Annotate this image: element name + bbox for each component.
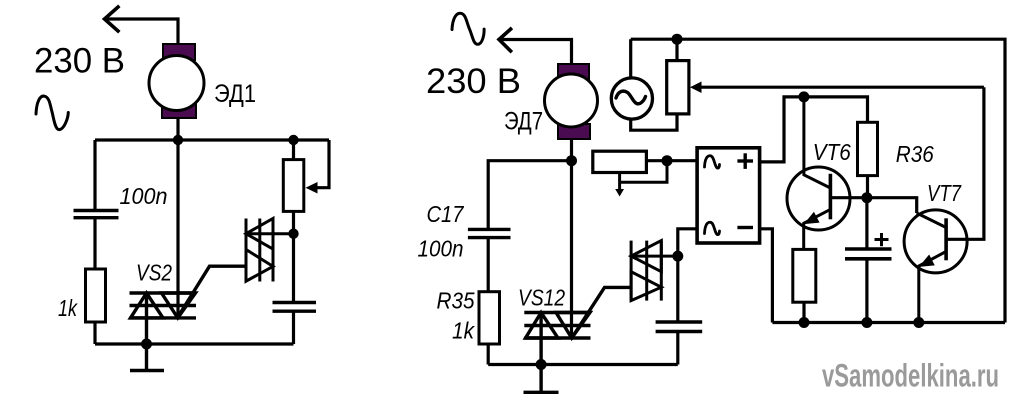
wire VT7 base to feedback xyxy=(946,87,984,239)
wiper of motor-line pot xyxy=(618,173,621,191)
motor ЭД1 top brush xyxy=(163,44,195,60)
wire + node to R36 xyxy=(804,97,868,122)
wire R35 to bottom rail xyxy=(487,344,490,365)
wire pot bottom loop to lamp bottom xyxy=(631,114,677,130)
wire lamp top to top rail xyxy=(629,39,632,78)
bridge ~ top-left xyxy=(705,156,720,168)
node diac / pot branch xyxy=(288,229,298,239)
wire node to pot top xyxy=(675,39,678,60)
electrolytic capacitor xyxy=(845,249,892,259)
potentiometer (lamp circuit) xyxy=(667,61,689,114)
node ground (right circuit) xyxy=(536,359,547,370)
arrow to mains (right circuit) xyxy=(499,29,511,51)
AC sine symbol (left) xyxy=(36,96,68,130)
bottom rail (right circuit left part) xyxy=(488,363,678,366)
wire resistor to bottom rail xyxy=(802,302,805,322)
bridge − xyxy=(737,226,753,229)
svg-text:R36: R36 xyxy=(896,141,934,167)
svg-text:1k: 1k xyxy=(58,295,78,321)
emitter resistor under VT6 xyxy=(793,249,816,302)
wiper tap wire xyxy=(620,161,667,183)
wire node down to electrolytic xyxy=(865,198,868,249)
wire diac node down to capacitor xyxy=(676,256,679,322)
svg-text:ЭД1: ЭД1 xyxy=(214,80,256,108)
svg-text:VT6: VT6 xyxy=(813,139,851,165)
node + rail xyxy=(798,91,809,102)
node VT7 emitter/rail xyxy=(913,317,924,328)
top rail (right circuit) xyxy=(631,39,1005,322)
svg-text:1k: 1k xyxy=(452,318,475,344)
svg-text:ЭД7: ЭД7 xyxy=(504,108,543,136)
wire motor node down to triac VS2 xyxy=(176,140,179,318)
svg-text:vSamodelkina.ru: vSamodelkina.ru xyxy=(822,358,999,394)
bridge + xyxy=(737,153,753,169)
node diac / bridge input xyxy=(672,251,683,262)
wire motor to top rail xyxy=(176,118,179,140)
triac VS2 xyxy=(130,266,247,344)
bottom rail (transistor stage) xyxy=(772,321,1005,324)
capacitor 100n (left) xyxy=(74,211,119,218)
bridge rectifier xyxy=(697,148,760,243)
svg-text:100n: 100n xyxy=(120,183,168,209)
motor ЭД7 top brush xyxy=(558,64,589,79)
bridge + output wire xyxy=(760,97,804,162)
bottom rail (left circuit) xyxy=(95,342,294,345)
wire R36 to base node xyxy=(866,176,869,198)
svg-text:C17: C17 xyxy=(427,201,465,227)
node pot top / top rail xyxy=(672,34,683,45)
capacitor (left circuit bottom right) xyxy=(273,303,317,312)
wire cap to resistor 1k xyxy=(93,218,96,269)
motor ЭД7 bottom brush xyxy=(558,124,590,139)
diac (left circuit) xyxy=(246,219,294,282)
potentiometer in motor line (right) xyxy=(593,151,647,172)
node electrolytic/rail xyxy=(861,317,872,328)
feedback arrowhead into pot xyxy=(690,82,702,94)
sine inside lamp xyxy=(616,91,646,104)
feedback wire to pot arrow xyxy=(699,86,984,89)
wire from arrow to motor ЭД1 xyxy=(105,19,179,45)
wire motor to node xyxy=(570,139,573,161)
potentiometer body (left circuit) xyxy=(283,160,304,212)
resistor R36 xyxy=(858,122,878,175)
node motor/rail xyxy=(173,135,183,145)
bridge − output wire xyxy=(760,229,773,323)
resistor R35 xyxy=(479,292,500,344)
triac VS12 xyxy=(524,287,631,364)
wire electrolytic to rail xyxy=(865,259,868,323)
node bottom rail / ground xyxy=(141,339,152,350)
svg-text:VT7: VT7 xyxy=(927,180,962,206)
motor ЭД1 bottom brush xyxy=(162,103,196,118)
svg-text:230 В: 230 В xyxy=(426,62,521,101)
lamp / AC source circle xyxy=(611,78,652,119)
node under motor xyxy=(566,155,577,166)
potentiometer wiper arrowhead xyxy=(306,182,318,194)
ground (right circuit) xyxy=(524,365,559,393)
wire cap to bottom rail xyxy=(292,312,295,345)
node pot tap xyxy=(662,155,673,166)
motor ЭД7 body xyxy=(545,74,598,127)
wire motor node down to triac VS12 xyxy=(570,161,573,338)
node base/R36/cap xyxy=(861,192,872,203)
wire pot to diac node xyxy=(292,211,295,301)
wire arrow to motor ЭД7 xyxy=(499,40,572,65)
wire VT6 base to node xyxy=(830,196,867,199)
wire capacitor to bottom rail xyxy=(676,332,679,365)
svg-text:VS2: VS2 xyxy=(136,260,172,286)
resistor 1k (left) xyxy=(86,269,106,322)
wire base node to VT7 collector xyxy=(867,198,917,213)
wire resistor to bottom rail xyxy=(93,322,96,344)
capacitor C17 xyxy=(468,229,511,237)
top rail (left circuit) xyxy=(95,138,329,141)
diac (right circuit) xyxy=(631,241,678,301)
svg-text:230 В: 230 В xyxy=(34,42,125,81)
transistor VT7 xyxy=(904,210,967,323)
node emitter resistor/rail xyxy=(799,317,810,328)
wire node to C17 branch xyxy=(488,161,571,228)
wire diac node up to bridge AC input xyxy=(678,229,697,256)
node pot/rail xyxy=(288,135,298,145)
AC sine symbol (right) xyxy=(452,13,484,44)
wire pot to bridge xyxy=(646,159,697,162)
motor ЭД1 body xyxy=(149,56,204,111)
wire rail down left branch xyxy=(93,140,96,210)
potentiometer wiper loop wire xyxy=(315,140,329,188)
transistor VT6 xyxy=(787,97,850,249)
capacitor (right circuit, at bridge) xyxy=(656,322,703,332)
svg-text:VS12: VS12 xyxy=(518,285,565,311)
svg-text:100n: 100n xyxy=(418,236,464,262)
wire rail to potentiometer xyxy=(292,140,295,160)
bridge ~ bottom-left xyxy=(705,222,720,234)
electrolytic + sign xyxy=(875,233,889,246)
wire C17 to R35 xyxy=(487,238,490,292)
ground (left circuit) xyxy=(130,344,164,371)
arrow to mains (left circuit) xyxy=(105,7,119,31)
wiper arrowhead (down) xyxy=(615,189,624,197)
svg-text:R35: R35 xyxy=(437,288,475,314)
